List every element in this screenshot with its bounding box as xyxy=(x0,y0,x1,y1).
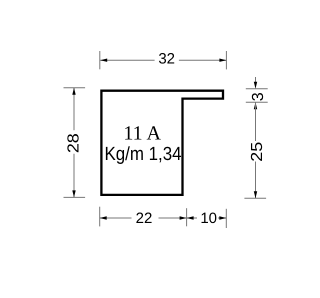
svg-text:22: 22 xyxy=(136,210,153,227)
svg-text:32: 32 xyxy=(158,50,175,67)
dimension 22 (bottom left) xyxy=(100,207,187,227)
label 11 A xyxy=(123,123,161,145)
dimension 25 (right) xyxy=(244,102,266,198)
dimension 28 (left) xyxy=(64,88,86,198)
label Kg/m 1,34 xyxy=(104,144,181,165)
svg-text:25: 25 xyxy=(249,142,266,162)
svg-text:3: 3 xyxy=(250,92,267,101)
dimension 32 (top) xyxy=(100,51,227,69)
svg-text:Kg/m 1,34: Kg/m 1,34 xyxy=(104,144,181,165)
dimension 3 (right top) xyxy=(246,77,268,102)
profile outline xyxy=(101,91,223,195)
svg-text:11 A: 11 A xyxy=(123,123,161,145)
svg-text:28: 28 xyxy=(66,133,83,153)
dimension 10 (bottom right) xyxy=(187,209,227,228)
svg-text:10: 10 xyxy=(200,210,217,227)
